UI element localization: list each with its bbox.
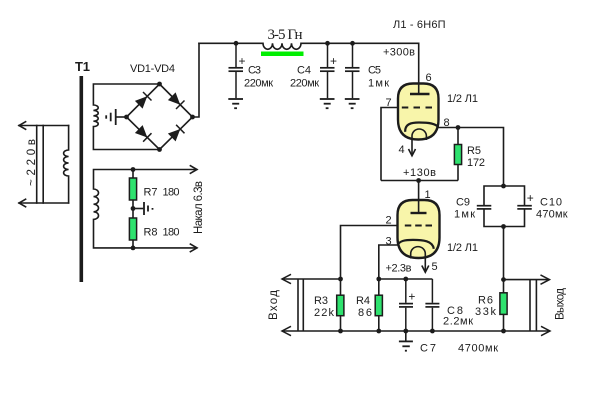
resistor R4 — [375, 279, 382, 331]
wire cathode bus — [379, 278, 433, 280]
svg-text:4700мк: 4700мк — [458, 343, 498, 355]
tube U1a cathode arc — [405, 123, 438, 132]
wire output double line left — [529, 280, 531, 331]
svg-text:R4: R4 — [356, 295, 370, 307]
node bridge top — [157, 82, 162, 87]
svg-text:C4: C4 — [297, 65, 311, 77]
wire input double line left — [36, 126, 38, 204]
node C8 bottom — [430, 329, 435, 334]
svg-text:8: 8 — [444, 117, 450, 129]
svg-text:+: + — [408, 290, 415, 304]
svg-text:C9: C9 — [456, 197, 470, 209]
diode VD top-right — [168, 92, 185, 109]
svg-text:+: + — [330, 54, 337, 68]
node input arrow bottom — [282, 326, 291, 335]
svg-text:4: 4 — [399, 144, 405, 156]
node C4 junction — [325, 41, 330, 46]
svg-text:1мк: 1мк — [368, 78, 389, 90]
wire +130v bus — [381, 180, 458, 182]
transformer T1 filament winding — [94, 166, 198, 252]
tube U1a anode bar — [410, 93, 430, 95]
resistor R7 — [129, 178, 136, 200]
tube U1b grid dashes — [405, 225, 432, 227]
wire C9 C10 top rail — [484, 186, 525, 205]
wire C9 C10 bottom rail — [484, 210, 525, 227]
ground C5 — [345, 99, 360, 108]
svg-text:R6: R6 — [478, 295, 493, 307]
wire bridge diamond — [127, 84, 193, 150]
wire pin4 heater lead with arrow — [409, 140, 416, 156]
node mains arrow bottom — [19, 199, 26, 207]
capacitor C3 — [229, 43, 244, 98]
svg-text:2.2мк: 2.2мк — [443, 316, 473, 328]
tube U1b anode bar — [411, 212, 427, 214]
wire grid pin2 to input — [341, 226, 398, 280]
wire mains input bottom line — [19, 202, 69, 204]
wire grid pin7 to +130 bus — [381, 108, 398, 181]
wire bridge ground stub — [116, 116, 127, 118]
diode VD bottom-right — [168, 125, 185, 142]
node output top — [501, 277, 506, 282]
svg-text:VD1-VD4: VD1-VD4 — [130, 63, 175, 75]
node R8 bottom — [131, 246, 136, 251]
svg-text:+: + — [239, 54, 246, 68]
svg-text:C10: C10 — [540, 197, 562, 209]
svg-text:+: + — [527, 191, 534, 205]
wire cathode pin8 bus — [439, 128, 504, 187]
node filament arrow top — [190, 166, 197, 174]
svg-text:R8: R8 — [144, 227, 158, 239]
node R7 R8 center tap — [131, 206, 136, 211]
svg-text:172: 172 — [467, 157, 485, 169]
svg-text:R3: R3 — [314, 295, 328, 307]
wire input double line right — [302, 279, 304, 331]
node bridge bottom — [157, 147, 162, 152]
node input arrow top — [282, 274, 291, 283]
svg-text:180: 180 — [163, 187, 180, 199]
capacitor C7 — [399, 279, 413, 331]
tube U1a anode lead inner — [418, 84, 420, 93]
svg-text:Накал 6.3в: Накал 6.3в — [193, 181, 205, 234]
resistor R8 — [129, 218, 136, 240]
svg-text:220мк: 220мк — [290, 78, 319, 90]
node C9 C10 bottom — [501, 224, 506, 229]
wire output node down — [503, 227, 505, 280]
svg-text:C5: C5 — [368, 65, 381, 77]
transformer T1 HV secondary winding — [93, 84, 159, 150]
svg-text:6: 6 — [426, 72, 432, 84]
wire anode lead upper tube — [418, 43, 420, 93]
resistor R3 — [337, 279, 344, 331]
svg-text:T1: T1 — [75, 59, 90, 74]
resistor R5 — [454, 128, 461, 181]
capacitor C5 — [345, 43, 360, 98]
node R4 top — [376, 277, 381, 282]
svg-text:220мк: 220мк — [244, 78, 273, 90]
tube U1a grid dashes — [402, 107, 432, 109]
ground center tap (sideways) — [144, 202, 153, 215]
wire output double line right — [535, 280, 537, 331]
wire center tap stub — [133, 208, 143, 210]
wire input double line right — [42, 126, 44, 204]
svg-text:Выход: Выход — [555, 288, 567, 320]
tube U1b heater arc — [411, 247, 426, 259]
svg-text:470мк: 470мк — [536, 209, 568, 221]
wire input top line — [282, 278, 341, 280]
svg-text:3-5 Гн: 3-5 Гн — [268, 27, 303, 43]
node filament arrow bottom — [190, 244, 197, 252]
svg-text:C3: C3 — [248, 65, 261, 77]
tube U1b lower half envelope — [398, 200, 440, 258]
capacitor C9 — [477, 206, 492, 209]
svg-text:22k: 22k — [314, 307, 335, 319]
node anode lower junction — [416, 178, 421, 183]
svg-text:1/2 Л1: 1/2 Л1 — [447, 93, 478, 105]
ground bridge (sideways) — [106, 109, 116, 125]
svg-text:+2.3в: +2.3в — [386, 263, 412, 275]
wire input double line left — [297, 279, 299, 331]
node C7 bottom — [403, 329, 408, 334]
node R3 bottom — [338, 329, 343, 334]
transformer T1 primary winding — [64, 126, 69, 204]
resistor R7 R8 chain wire — [132, 170, 134, 248]
svg-text:R7: R7 — [144, 187, 158, 199]
tube U1b cathode arc — [398, 240, 434, 249]
node bridge right — [190, 115, 195, 120]
inductor L choke highlight — [261, 52, 304, 57]
node output arrow top — [541, 275, 550, 284]
svg-text:86: 86 — [358, 307, 372, 319]
node C3 junction — [234, 41, 239, 46]
ground C4 — [320, 99, 335, 108]
node R6 bottom — [501, 329, 506, 334]
wire top B+ bus with choke — [199, 43, 419, 49]
ground C3 — [228, 99, 243, 108]
wire ground bus bottom — [282, 330, 550, 332]
svg-text:33k: 33k — [475, 306, 497, 318]
svg-text:+130в: +130в — [403, 167, 436, 179]
ground main (below C7) — [399, 331, 413, 351]
svg-text:R5: R5 — [467, 145, 481, 157]
wire bridge output up — [193, 43, 200, 117]
resistor R6 — [500, 280, 507, 331]
wire mains input top line — [19, 125, 69, 127]
node R5 top — [456, 125, 461, 130]
node R7 top — [131, 167, 136, 172]
tube U1b anode lead inner — [418, 201, 420, 213]
svg-text:Л1 - 6Н6П: Л1 - 6Н6П — [393, 19, 446, 31]
svg-text:5: 5 — [432, 261, 438, 273]
wire cathode pin3 down — [379, 245, 398, 279]
node C5 junction — [350, 41, 355, 46]
svg-text:+300в: +300в — [383, 47, 415, 59]
svg-text:1/2 Л1: 1/2 Л1 — [447, 242, 478, 254]
svg-text:Вход: Вход — [268, 290, 280, 320]
node mains arrow top — [19, 122, 26, 130]
node R3 top — [338, 277, 343, 282]
tube U1a heater arc — [412, 129, 426, 140]
node R4 bottom — [376, 329, 381, 334]
capacitor C4 — [320, 43, 335, 98]
tube U1a upper half envelope — [398, 84, 439, 140]
capacitor C8 — [425, 279, 439, 331]
node bridge left — [124, 115, 129, 120]
capacitor C10 — [517, 206, 532, 209]
node C9 C10 top — [501, 184, 506, 189]
node output arrow bottom — [541, 326, 550, 335]
svg-text:180: 180 — [163, 227, 180, 239]
wire pin5 heater lead with arrow — [422, 259, 429, 273]
svg-text:1мк: 1мк — [454, 209, 475, 221]
wire anode lead lower tube — [418, 181, 420, 213]
diode VD bottom-left — [135, 125, 152, 142]
transformer T1 core — [80, 76, 84, 282]
diode VD top-left — [135, 92, 152, 109]
wire output top line — [504, 279, 550, 281]
node C7 top — [403, 277, 408, 282]
